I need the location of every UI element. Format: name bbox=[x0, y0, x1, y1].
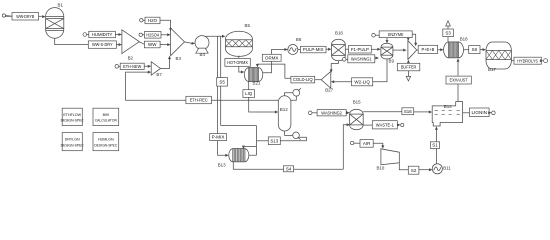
wire PULP-MIX to B16 bbox=[326, 48, 332, 51]
stream label F1-PULP bbox=[349, 46, 372, 53]
output connector WASTE-1 bbox=[397, 123, 404, 126]
stream label WW-S-DRY bbox=[88, 41, 116, 48]
svg-text:B13: B13 bbox=[218, 162, 226, 167]
svg-text:P+E+B: P+E+B bbox=[421, 47, 434, 52]
stream label S1 bbox=[430, 142, 439, 149]
svg-text:WW: WW bbox=[148, 42, 157, 47]
svg-text:DESIGN-SPEC: DESIGN-SPEC bbox=[61, 143, 85, 147]
wire P-MIX to B13 bbox=[218, 141, 229, 157]
stream label AIR bbox=[360, 140, 373, 148]
wire B9 to W2-LIQ bbox=[373, 59, 387, 82]
wire P+E+B to B18 bbox=[438, 48, 444, 51]
label B2 bbox=[128, 56, 134, 61]
wire S2 to B11 bbox=[419, 168, 433, 171]
svg-text:B15: B15 bbox=[353, 99, 361, 104]
label B14 bbox=[444, 104, 452, 109]
wire WASHING2 to B15 bbox=[346, 111, 350, 114]
wire B13 to junction bbox=[249, 154, 257, 156]
wire B16 to F1-PULP bbox=[345, 48, 348, 50]
stream label EXHAUST bbox=[446, 76, 471, 84]
label B10 bbox=[377, 165, 385, 170]
wire S16 to B14 bbox=[414, 111, 433, 114]
wire F1-PULP to B9 bbox=[371, 48, 380, 51]
stream label S16 bbox=[402, 108, 414, 115]
wire AIR to B10 bbox=[373, 143, 384, 149]
stream label W2-LIQ bbox=[352, 78, 373, 86]
wire ETH-NEW to B7 bbox=[144, 65, 151, 68]
label B27 bbox=[325, 88, 333, 93]
wire ETH-REC recycle bbox=[126, 71, 279, 101]
wire to B13 top bbox=[242, 146, 257, 149]
svg-text:B11: B11 bbox=[443, 166, 451, 171]
stream label ORMX bbox=[262, 54, 281, 61]
stream label S2 bbox=[408, 166, 419, 174]
svg-text:B2: B2 bbox=[128, 56, 134, 61]
wire WW-S-DRY to B2 bbox=[116, 43, 122, 46]
wire H2O to B3 bbox=[160, 20, 172, 31]
output connector LIGNIN bbox=[488, 111, 495, 115]
svg-text:B10: B10 bbox=[377, 165, 385, 170]
mixer B7 bbox=[151, 62, 160, 75]
wire B14 to LIGNIN bbox=[463, 112, 470, 114]
wire S3 vent arrow bbox=[446, 21, 451, 29]
svg-text:HUMIDITY: HUMIDITY bbox=[92, 32, 113, 37]
wire B13 to S4 bbox=[233, 162, 283, 170]
wire junction column bbox=[256, 126, 258, 156]
stream label COLD-LIQ bbox=[291, 76, 315, 83]
svg-text:B5: B5 bbox=[245, 23, 251, 28]
svg-text:WW-DRYB: WW-DRYB bbox=[16, 14, 34, 19]
stream label WASHING1 bbox=[348, 55, 375, 63]
boiler B14 bbox=[432, 102, 462, 126]
svg-text:B4: B4 bbox=[200, 52, 206, 57]
wire B9 to B8 bbox=[393, 49, 407, 52]
stream label WW-DRYB bbox=[12, 13, 39, 20]
wire EXHAUST to B18 bbox=[457, 58, 460, 75]
design spec box ETHFLOW bbox=[61, 108, 85, 125]
wire B14 stack to EXHAUST bbox=[457, 84, 459, 101]
design spec box DRYLGN bbox=[61, 133, 85, 151]
svg-text:B21: B21 bbox=[253, 81, 261, 86]
wire S6 to B17 bbox=[480, 48, 486, 51]
svg-text:B17: B17 bbox=[488, 67, 496, 72]
wire B12 top to condenser bbox=[285, 93, 293, 96]
input connector WASHING2 source bbox=[308, 111, 317, 115]
svg-text:S5: S5 bbox=[219, 80, 225, 85]
label B7 bbox=[156, 72, 162, 77]
wire H2SO4 to B3 bbox=[161, 33, 171, 36]
input connector ENZYME source bbox=[372, 33, 380, 37]
label B1 bbox=[58, 3, 64, 8]
reboiler of B12 bbox=[293, 132, 301, 140]
svg-text:LIGNIN: LIGNIN bbox=[472, 110, 488, 115]
wire LIQ to B12 feed bbox=[249, 97, 279, 113]
svg-text:COLD-LIQ: COLD-LIQ bbox=[293, 77, 313, 82]
column B1 bbox=[46, 8, 64, 39]
mixer B27 bbox=[321, 71, 331, 88]
input connector H2O source bbox=[140, 19, 145, 22]
input connector AIR source bbox=[351, 141, 361, 144]
svg-text:B6: B6 bbox=[296, 37, 302, 42]
svg-text:ETHFLOW: ETHFLOW bbox=[63, 113, 81, 117]
svg-text:EXHAUST: EXHAUST bbox=[450, 78, 468, 83]
wire WASHING1 to B9 bbox=[375, 57, 379, 60]
svg-text:S1: S1 bbox=[432, 143, 438, 148]
label B17 bbox=[488, 67, 496, 72]
svg-text:DESIGN-SPEC: DESIGN-SPEC bbox=[61, 119, 85, 123]
wire S4 onward bbox=[294, 168, 344, 170]
stream label H2SO4 bbox=[144, 32, 161, 39]
svg-text:BUFFER: BUFFER bbox=[401, 65, 417, 70]
stream label S13 bbox=[268, 137, 280, 145]
mixer B2 bbox=[122, 30, 139, 54]
wire B15 to WASTE-1 bbox=[363, 124, 373, 126]
wire W2-LIQ to B27 bbox=[331, 80, 352, 83]
wire S4 to B15 bbox=[343, 123, 350, 169]
input connector WW-DRYB source bbox=[2, 14, 12, 17]
svg-text:B18: B18 bbox=[460, 37, 468, 42]
wire S5 path horizontal bbox=[221, 125, 257, 127]
svg-text:S2: S2 bbox=[411, 168, 417, 173]
label B15 bbox=[353, 99, 361, 104]
svg-text:CALCULATOR: CALCULATOR bbox=[95, 119, 118, 123]
stream label LIGNIN bbox=[470, 108, 490, 117]
wire BUFFER purge bbox=[406, 71, 410, 81]
svg-text:H2O: H2O bbox=[148, 18, 158, 23]
wire B2 to WW bbox=[139, 42, 144, 44]
label B3 bbox=[176, 56, 182, 61]
svg-text:H2SO4: H2SO4 bbox=[146, 32, 159, 37]
svg-text:B12: B12 bbox=[280, 107, 288, 112]
column B15 bbox=[350, 109, 364, 130]
svg-text:B27: B27 bbox=[325, 88, 333, 93]
stream label BUFFER bbox=[397, 63, 420, 71]
wire B21 to LIQ bbox=[248, 82, 250, 90]
wire HUMIDITY to B2 bbox=[115, 33, 122, 36]
wire ENZYME to B9 bbox=[386, 38, 389, 44]
svg-text:B9: B9 bbox=[389, 59, 395, 64]
wire B8 to P+E+B bbox=[417, 49, 418, 51]
stream label S4 bbox=[284, 166, 294, 172]
svg-text:WASHING2: WASHING2 bbox=[321, 110, 342, 115]
svg-text:B3: B3 bbox=[176, 56, 182, 61]
wire B11 to S1 bbox=[435, 148, 437, 163]
wire B1 bottoms to WW-S-DRY bbox=[55, 38, 89, 44]
wire ENZYME to B8 top vertex bbox=[407, 38, 410, 41]
column B16 bbox=[332, 39, 346, 61]
wire B15 to S16 bbox=[363, 111, 402, 113]
svg-text:S13: S13 bbox=[270, 138, 278, 143]
wire B18 to S3 vent bbox=[447, 37, 449, 42]
stream label H2O bbox=[145, 17, 160, 24]
stream label WW bbox=[144, 41, 160, 48]
svg-text:S3: S3 bbox=[445, 30, 451, 35]
mixer B8 bbox=[408, 41, 417, 60]
wire B6 to PULP-MIX bbox=[298, 49, 301, 51]
svg-text:ETH-REC: ETH-REC bbox=[190, 98, 209, 103]
wire WW to B3 bbox=[160, 43, 171, 46]
output connector HYDROLYS bbox=[540, 59, 548, 63]
svg-text:AIR: AIR bbox=[363, 141, 370, 146]
stream label S3 bbox=[443, 29, 454, 37]
wire ENZYME to B8 bbox=[412, 34, 417, 46]
wire P-MIX vertical line bbox=[217, 36, 219, 133]
wire HOT-ORMX to B21 bbox=[239, 66, 245, 73]
stream label P-MIX bbox=[210, 134, 227, 141]
svg-text:ORMX: ORMX bbox=[265, 55, 278, 60]
svg-text:ENZYME: ENZYME bbox=[388, 32, 404, 37]
svg-text:WASHING1: WASHING1 bbox=[351, 56, 372, 61]
input connector HUMIDITY source bbox=[83, 33, 89, 37]
stream label S5 bbox=[217, 78, 228, 87]
wire B27 to COLD-LIQ bbox=[315, 79, 322, 81]
column B9 bbox=[381, 43, 393, 59]
heat exchanger B13 bbox=[229, 149, 249, 162]
stream label ETH-REC bbox=[186, 96, 212, 103]
svg-text:S4: S4 bbox=[286, 166, 292, 171]
wire ORMX to B6 bbox=[272, 48, 288, 54]
svg-text:LIQ: LIQ bbox=[245, 91, 253, 96]
label B11 bbox=[443, 166, 451, 171]
heat exchanger B18 bbox=[444, 42, 464, 58]
stream label LIQ bbox=[243, 90, 255, 98]
wire B5 to HOT-ORMX bbox=[238, 56, 240, 59]
column B12 bbox=[278, 96, 291, 131]
label B9 bbox=[389, 59, 395, 64]
wire B21 to ORMX bbox=[263, 61, 272, 72]
stream label S6 bbox=[469, 46, 480, 54]
wire reboiler to S13 bbox=[280, 137, 306, 141]
input connector H2SO4 source bbox=[139, 33, 144, 36]
svg-text:PULP-MIX: PULP-MIX bbox=[303, 47, 324, 52]
stream label ETH-NEW bbox=[120, 63, 144, 69]
svg-text:S6: S6 bbox=[472, 47, 478, 52]
label B13 bbox=[218, 162, 226, 167]
condenser of B12 bbox=[293, 88, 301, 96]
label B12 bbox=[280, 107, 288, 112]
wire S13 to junction bbox=[257, 140, 269, 142]
svg-text:B1: B1 bbox=[58, 3, 64, 8]
stream label HOT-ORMX bbox=[225, 58, 250, 66]
svg-text:DESIGN-SPEC: DESIGN-SPEC bbox=[94, 143, 118, 147]
input connector WASHING1 source bbox=[342, 58, 347, 62]
wire B18 to S6 bbox=[464, 49, 469, 51]
wire B12 bottoms to reboiler bbox=[285, 131, 293, 135]
stream label P+E+B bbox=[418, 45, 437, 53]
heater B6 bbox=[288, 45, 298, 55]
svg-text:B7: B7 bbox=[156, 72, 162, 77]
svg-text:DRYLGN: DRYLGN bbox=[65, 138, 80, 142]
mixer B3 bbox=[171, 28, 185, 56]
stream label WASHING2 bbox=[317, 110, 346, 116]
label B18 bbox=[460, 37, 468, 42]
input connector ETH-NEW source bbox=[115, 65, 120, 69]
label B16 bbox=[335, 30, 343, 35]
wire B16 to B27 bbox=[330, 61, 339, 73]
wire WW-DRYB to B1 bbox=[39, 15, 46, 18]
svg-text:S16: S16 bbox=[404, 109, 412, 114]
svg-text:B16: B16 bbox=[335, 30, 343, 35]
svg-text:F1-PULP: F1-PULP bbox=[351, 47, 369, 52]
wire BUFFER to B8 bbox=[407, 60, 410, 63]
wire B17 to HYDROLYS bbox=[511, 60, 514, 62]
svg-text:WASTE-1: WASTE-1 bbox=[376, 122, 395, 127]
svg-text:HOT-ORMX: HOT-ORMX bbox=[227, 60, 248, 65]
stream label ENZYME bbox=[379, 31, 412, 38]
svg-text:HYDROLYS: HYDROLYS bbox=[517, 58, 538, 63]
heat exchanger B21 bbox=[244, 68, 262, 82]
svg-text:B99: B99 bbox=[103, 113, 109, 117]
calculator box B99 bbox=[93, 108, 119, 125]
svg-text:W2-LIQ: W2-LIQ bbox=[354, 79, 370, 84]
wire B4 to B5 bbox=[206, 35, 226, 38]
vessel B5 bbox=[226, 31, 253, 56]
wire B7 to B3 bbox=[161, 56, 172, 69]
label B5 bbox=[245, 23, 251, 28]
stream label HYDROLYS bbox=[514, 57, 541, 64]
label B6 bbox=[296, 37, 302, 42]
wire B10 to S2 bbox=[399, 163, 408, 170]
label B21 bbox=[253, 81, 261, 86]
svg-text:ETH-NEW: ETH-NEW bbox=[123, 64, 142, 69]
label B4 bbox=[200, 52, 206, 57]
wire S1 to B14 bbox=[435, 126, 438, 141]
pump B4 bbox=[195, 36, 209, 54]
compressor B10 bbox=[381, 149, 399, 165]
svg-text:HUMLGN: HUMLGN bbox=[98, 138, 114, 142]
wire B3 to B4 bbox=[185, 42, 196, 45]
wire COLD-LIQ to B21 cold inlet bbox=[256, 64, 291, 78]
vessel B17 bbox=[486, 42, 511, 69]
svg-text:P-MIX: P-MIX bbox=[212, 135, 225, 140]
stream label PULP-MIX bbox=[300, 46, 326, 53]
wire S5 vertical line bbox=[220, 36, 222, 125]
svg-text:B14: B14 bbox=[444, 104, 452, 109]
svg-text:WW-S-DRY: WW-S-DRY bbox=[92, 42, 113, 47]
stream label WASTE-1 bbox=[372, 121, 397, 129]
heater B11 bbox=[432, 164, 442, 174]
wire condenser reflux bbox=[291, 96, 296, 100]
stream label HUMIDITY bbox=[89, 31, 116, 37]
design spec box HUMLGN bbox=[93, 133, 119, 151]
